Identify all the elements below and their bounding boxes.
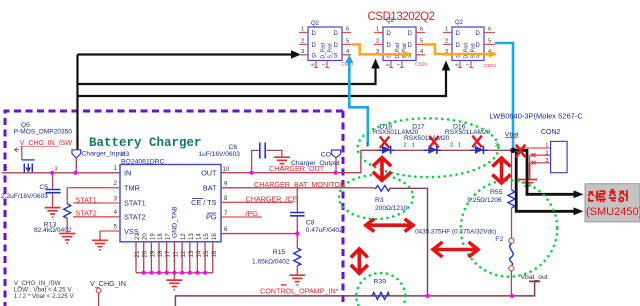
svg-text:GND_TAB: GND_TAB bbox=[172, 206, 179, 238]
svg-text:D: D bbox=[387, 43, 392, 49]
svg-text:12: 12 bbox=[181, 250, 187, 257]
resistor R55 bbox=[467, 189, 515, 208]
annotation red double arrow (below D18) bbox=[373, 158, 391, 181]
svg-text:19: 19 bbox=[150, 250, 156, 257]
transistor Q2 (third) bbox=[443, 20, 497, 68]
svg-text:15: 15 bbox=[204, 250, 210, 257]
svg-text:1: 1 bbox=[376, 27, 379, 33]
junction dots on bottom bus bbox=[142, 271, 207, 275]
annotation green ellipse (R3) bbox=[339, 175, 413, 219]
svg-text:D: D bbox=[408, 43, 413, 49]
svg-text:V_CHG_IN: V_CHG_IN bbox=[90, 279, 126, 288]
svg-text:CHARGER_OUT: CHARGER_OUT bbox=[269, 164, 325, 173]
svg-text:21: 21 bbox=[135, 233, 141, 240]
svg-text:C6: C6 bbox=[229, 144, 238, 151]
svg-text:17: 17 bbox=[166, 233, 172, 240]
wire orange annotation Q2#2 to Q2#3 bbox=[424, 44, 490, 54]
diode D17 bbox=[404, 123, 450, 154]
svg-text:(SMU2450): (SMU2450) bbox=[586, 206, 640, 218]
svg-text:R3: R3 bbox=[375, 197, 384, 204]
svg-text:1: 1 bbox=[412, 142, 415, 148]
svg-text:16: 16 bbox=[212, 250, 218, 257]
svg-text:CE / TS: CE / TS bbox=[191, 198, 217, 207]
annotation green circle (fuse F2) bbox=[461, 180, 557, 276]
diode rail wire bbox=[361, 149, 513, 151]
svg-text:20: 20 bbox=[143, 233, 149, 240]
svg-text:C5: C5 bbox=[39, 184, 48, 191]
svg-text:6: 6 bbox=[346, 27, 349, 33]
svg-text:S: S bbox=[334, 53, 338, 59]
svg-text:LWB0640-3P(Molex 5267-C: LWB0640-3P(Molex 5267-C bbox=[490, 112, 584, 121]
diode D16 bbox=[445, 123, 491, 154]
svg-text:BAT: BAT bbox=[203, 183, 217, 192]
svg-text:R15: R15 bbox=[273, 249, 286, 256]
svg-text:D: D bbox=[334, 43, 339, 49]
svg-text:C8: C8 bbox=[306, 220, 315, 227]
svg-text:Q2: Q2 bbox=[386, 18, 395, 24]
annotation green ellipse (diode chain) bbox=[358, 118, 499, 177]
svg-text:CHARGER_BAT_MONITOR: CHARGER_BAT_MONITOR bbox=[254, 180, 345, 189]
svg-text:3: 3 bbox=[301, 49, 304, 55]
svg-text:1 / 2 * Vbat < 2.125 V: 1 / 2 * Vbat < 2.125 V bbox=[14, 293, 75, 300]
svg-text:STAT2: STAT2 bbox=[124, 213, 146, 222]
annotation green ellipse (R39) bbox=[356, 273, 405, 306]
resistor R15 bbox=[252, 234, 301, 275]
svg-text:18: 18 bbox=[158, 233, 164, 240]
svg-text:PG: PG bbox=[206, 212, 217, 221]
svg-text:D: D bbox=[476, 31, 481, 37]
svg-text:11: 11 bbox=[173, 251, 179, 258]
svg-text:D: D bbox=[456, 31, 461, 37]
svg-text:9.25Ω/1206: 9.25Ω/1206 bbox=[467, 197, 502, 204]
ground (CON2) bbox=[518, 163, 537, 189]
svg-text:2: 2 bbox=[445, 38, 448, 44]
svg-text:6: 6 bbox=[488, 27, 491, 33]
wire pin6 bbox=[221, 233, 297, 235]
svg-text:Charger_Input: Charger_Input bbox=[82, 151, 126, 158]
resistor R3 bbox=[374, 186, 407, 212]
svg-text:RSX501LAM20: RSX501LAM20 bbox=[404, 135, 450, 142]
svg-text:16: 16 bbox=[212, 233, 218, 240]
annotation box SMU2450 bbox=[585, 184, 640, 222]
svg-text:Vbat_out: Vbat_out bbox=[521, 274, 548, 281]
svg-text:Q2: Q2 bbox=[455, 20, 464, 26]
svg-text:2: 2 bbox=[404, 142, 407, 148]
svg-text:13: 13 bbox=[189, 250, 195, 257]
svg-text:0435.375HF (0.375A/32Vdc): 0435.375HF (0.375A/32Vdc) bbox=[415, 228, 496, 235]
svg-text:1: 1 bbox=[445, 27, 448, 33]
svg-text:CONTROL_OPAMP_IN*: CONTROL_OPAMP_IN* bbox=[260, 287, 339, 296]
wire pin10 OUT to CHARGER_OUT bbox=[221, 150, 382, 172]
svg-text:3: 3 bbox=[55, 166, 58, 172]
ground (VSS pin5) bbox=[99, 231, 101, 240]
annotation red double arrow (bottom left, vertical) bbox=[351, 249, 368, 274]
svg-text:Q2: Q2 bbox=[311, 21, 320, 27]
svg-text:13: 13 bbox=[189, 233, 195, 240]
svg-text:U3: U3 bbox=[121, 151, 130, 158]
wire R3 right leg down to bus bbox=[389, 188, 427, 296]
svg-text:2: 2 bbox=[450, 142, 453, 148]
wire black L2 to Q2#2 gate bbox=[76, 69, 375, 85]
svg-text:D: D bbox=[334, 31, 339, 37]
wire Vbat node down through R55 bbox=[511, 150, 513, 190]
svg-text:R39: R39 bbox=[374, 278, 387, 285]
svg-text:21: 21 bbox=[135, 250, 141, 257]
svg-text:D17: D17 bbox=[412, 123, 425, 130]
svg-text:TMR: TMR bbox=[124, 183, 140, 192]
svg-text:12: 12 bbox=[181, 233, 187, 240]
wire black arrow to SMU (lower) bbox=[516, 152, 574, 211]
ground (R13) bbox=[59, 234, 75, 244]
svg-text:F2: F2 bbox=[495, 236, 503, 243]
svg-text:D: D bbox=[387, 31, 392, 37]
wire pin9 BAT to monitor / R3 bbox=[221, 187, 374, 189]
ground (IC bottom bus) bbox=[173, 273, 175, 280]
IC U3 left pin stubs bbox=[67, 188, 120, 231]
svg-text:CSD1: CSD1 bbox=[484, 63, 497, 68]
svg-text:2.2uF/16V/0603: 2.2uF/16V/0603 bbox=[1, 193, 48, 200]
wire pin7 PG bbox=[221, 216, 262, 218]
IC U3 bottom pins to ground bus bbox=[135, 233, 218, 273]
annotation red X (Vbat-CON2) bbox=[516, 145, 525, 158]
wire pin8 CE/TS bbox=[221, 201, 293, 203]
connector CON2 bbox=[490, 112, 584, 175]
svg-text:CSD13202Q2: CSD13202Q2 bbox=[368, 11, 435, 23]
transistor Q2 (first) bbox=[299, 21, 354, 68]
annotation red X (D18) bbox=[380, 137, 390, 149]
svg-text:2: 2 bbox=[545, 150, 548, 156]
diode D18 bbox=[373, 123, 419, 154]
svg-text:0.47uF/0402: 0.47uF/0402 bbox=[306, 227, 343, 234]
svg-text:14: 14 bbox=[196, 250, 202, 257]
svg-text:RSX501LAM20: RSX501LAM20 bbox=[445, 129, 491, 136]
junction dot (Vbat node, black) bbox=[510, 148, 515, 153]
svg-text:G: G bbox=[312, 53, 317, 59]
resistor R13 bbox=[34, 188, 72, 234]
svg-text:S_Pad: S_Pad bbox=[471, 43, 477, 58]
svg-text:17: 17 bbox=[166, 250, 172, 257]
annotation red double arrow (fuse, horizontal) bbox=[433, 242, 478, 257]
svg-text:1: 1 bbox=[545, 143, 548, 149]
capacitor C5 bbox=[1, 173, 61, 207]
svg-text:Battery Charger: Battery Charger bbox=[89, 136, 202, 150]
svg-text:IN: IN bbox=[124, 169, 131, 178]
svg-text:5: 5 bbox=[488, 38, 491, 44]
ground (C6) bbox=[274, 157, 290, 167]
svg-text:2: 2 bbox=[4, 167, 7, 173]
wire black L3 to Q2#3 gate bbox=[76, 71, 446, 97]
svg-text:5: 5 bbox=[420, 38, 423, 44]
svg-text:D: D bbox=[312, 31, 317, 37]
svg-text:D_Pad: D_Pad bbox=[395, 43, 401, 59]
svg-text:6: 6 bbox=[420, 27, 423, 33]
svg-text:STAT1: STAT1 bbox=[124, 199, 146, 208]
annotation red X (D16) bbox=[472, 136, 482, 148]
svg-text:2: 2 bbox=[376, 38, 379, 44]
svg-text:STAT2: STAT2 bbox=[76, 209, 97, 218]
svg-text:OUT: OUT bbox=[201, 168, 217, 177]
svg-text:1: 1 bbox=[301, 27, 304, 33]
wire black vertical from charger input bbox=[76, 55, 78, 151]
capacitor C8 bbox=[290, 188, 343, 234]
annotation red X (D17) bbox=[429, 136, 439, 148]
svg-text:5: 5 bbox=[346, 38, 349, 44]
svg-text:CON2: CON2 bbox=[541, 129, 561, 136]
annotation red double arrow (below R3, horizontal) bbox=[366, 219, 413, 232]
svg-text:P-MOS_DMP20350: P-MOS_DMP20350 bbox=[14, 129, 73, 136]
svg-text:R55: R55 bbox=[490, 189, 503, 196]
power flag Charger_Input bbox=[72, 150, 81, 158]
svg-text:CO: CO bbox=[321, 152, 331, 159]
svg-text:CHARGER_/CE: CHARGER_/CE bbox=[246, 195, 298, 204]
junction dots (magenta) bbox=[50, 171, 514, 298]
svg-text:20: 20 bbox=[143, 250, 149, 257]
svg-text:14: 14 bbox=[196, 233, 202, 240]
svg-text:15: 15 bbox=[204, 233, 210, 240]
wire CONTROL_OPAMP_IN bbox=[175, 282, 534, 306]
capacitor C6 bbox=[199, 143, 282, 173]
svg-text:V_CHG_IN_/SW: V_CHG_IN_/SW bbox=[20, 140, 73, 147]
svg-text:/PG: /PG bbox=[246, 209, 259, 218]
annotation red double arrow (right, near R55) bbox=[492, 158, 510, 183]
transistor Q5 P-MOS bbox=[4, 122, 72, 173]
svg-text:D: D bbox=[312, 43, 317, 49]
svg-text:D: D bbox=[456, 43, 461, 49]
wire black arrow to SMU (upper) bbox=[513, 150, 574, 194]
terminal Vbat_out bbox=[529, 280, 540, 282]
ground (C5) bbox=[45, 208, 61, 218]
wire cyan from Q2#3 pin5 to Vbat node bbox=[495, 43, 513, 149]
wire black L1 to Q2#1 gate bbox=[78, 53, 293, 55]
svg-text:STAT1: STAT1 bbox=[76, 195, 97, 204]
transistor Q2 (second) bbox=[374, 18, 428, 68]
svg-text:1uF/16V/0603: 1uF/16V/0603 bbox=[199, 151, 241, 158]
svg-text:S_Pad: S_Pad bbox=[328, 43, 334, 58]
svg-text:3: 3 bbox=[545, 158, 548, 164]
note text block bottom-left bbox=[14, 280, 75, 300]
svg-text:CSD1: CSD1 bbox=[415, 62, 428, 67]
svg-text:1: 1 bbox=[366, 142, 369, 148]
IC U3 battery charger BQ24061DRC bbox=[120, 151, 221, 242]
wire orange annotation Q2#1 to Q2#2 bbox=[352, 44, 404, 54]
svg-text:1: 1 bbox=[458, 142, 461, 148]
svg-text:2: 2 bbox=[301, 38, 304, 44]
svg-text:18: 18 bbox=[158, 250, 164, 257]
resistor R39 bbox=[372, 278, 389, 299]
svg-text:1.65kΩ/0402: 1.65kΩ/0402 bbox=[252, 259, 290, 266]
wire main input rail bbox=[2, 172, 120, 174]
svg-text:D_Pad: D_Pad bbox=[464, 43, 470, 59]
fuse F2 bbox=[415, 228, 514, 296]
svg-text:D_Pad: D_Pad bbox=[321, 43, 327, 59]
svg-text:D: D bbox=[408, 31, 413, 37]
purple dashed boundary of battery charger block bbox=[5, 111, 343, 306]
ground (R15) bbox=[289, 275, 305, 285]
svg-text:19: 19 bbox=[150, 233, 156, 240]
wire cyan annotation to Q2#1 pin4 bbox=[349, 60, 368, 146]
